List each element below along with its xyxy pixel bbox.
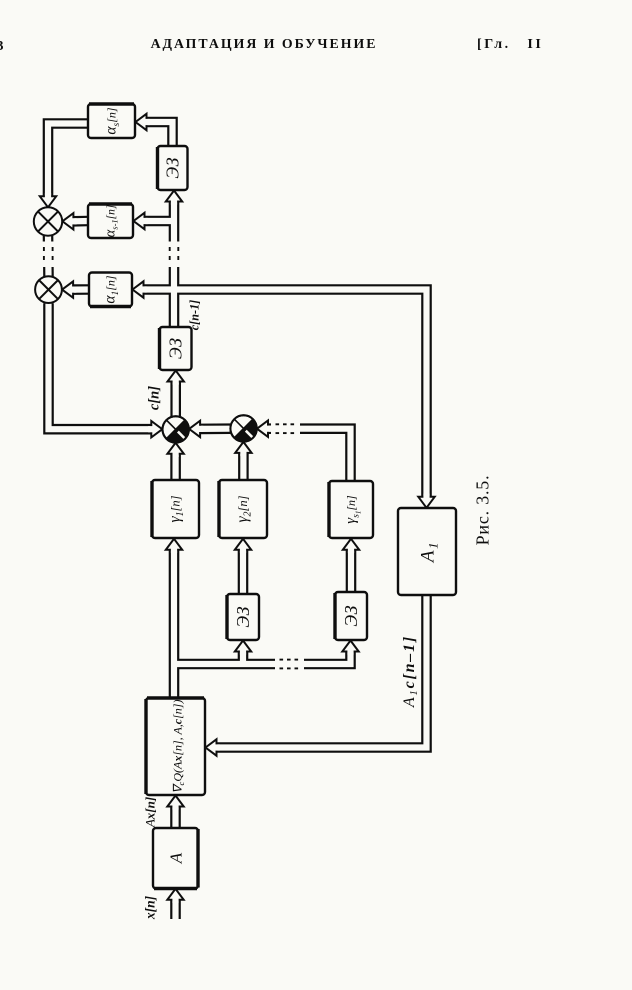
label A1c[n-1] on A1 output: [401, 635, 420, 708]
label nabla_c Q(Ax[n], A,c[n]) in gradient block: [171, 700, 187, 794]
wire: c[n-1] branch right and down to A1: [174, 290, 427, 497]
block EZ2 (memory): [160, 327, 192, 370]
block EZ4 (memory): [227, 594, 259, 640]
svg-text:ЭЗ: ЭЗ: [341, 605, 361, 626]
block EZ1 (memory): [158, 146, 188, 190]
wire: EZ5 output to gamma_s1[n] arrowhead: [343, 539, 359, 553]
adder S2 (circle, black right+bottom sectors): [230, 415, 256, 441]
wire: adder S1 output c[n] up to EZ2: [170, 382, 181, 417]
label Ax[n] on A output: [142, 797, 157, 828]
wire: EZ5 output to gamma_s1[n]: [346, 550, 357, 592]
wire: EZ4 output to gamma_2[n]: [238, 550, 249, 594]
wire: gamma_2[n] output to adder S2: [238, 453, 249, 480]
wire: alpha_s-1[n] output to multiplier M1: [73, 216, 88, 227]
svg-text:ЭЗ: ЭЗ: [166, 338, 186, 359]
wire: c[n-1] branch to alpha_1[n] arrowhead: [133, 281, 147, 297]
label alpha_s[n] in its block: [103, 107, 122, 135]
block alpha_s[n]: [88, 104, 135, 138]
label EZ in block EZ4: [233, 606, 253, 627]
block gamma_2[n]: [219, 480, 267, 538]
wire: adder S2 output to adder S1 arrowhead: [189, 421, 203, 437]
svg-text:∇cQ(Ax[n], A,c[n]): ∇cQ(Ax[n], A,c[n]): [171, 700, 187, 794]
block alpha_1[n]: [89, 273, 132, 307]
wire: EZ1 output to alpha_s[n]: [147, 122, 173, 146]
caption Ris. 3.5.: [473, 475, 493, 546]
svg-text:c[n]: c[n]: [146, 386, 162, 410]
wire: c[n-1] branch to alpha_1[n]: [144, 284, 175, 295]
wire: A1 output down and left to gradient block arrowhead: [206, 739, 220, 755]
wire: alpha_1[n] output to multiplier M2 arrowhead: [62, 281, 76, 297]
svg-text:ЭЗ: ЭЗ: [233, 606, 253, 627]
wire: multiplier chain M1 to M2: [43, 236, 54, 277]
svg-text:3: 3: [0, 39, 4, 54]
wire: gamma_1[n] output to adder S1: [170, 454, 181, 480]
svg-text:Рис. 3.5.: Рис. 3.5.: [473, 475, 493, 546]
wire: adder S1 output c[n] up to EZ2 arrowhead: [168, 371, 184, 385]
label EZ in block EZ5: [341, 605, 361, 626]
wire: A1 output down and left to gradient block: [217, 595, 427, 748]
block alpha_s-1[n]: [88, 204, 133, 238]
wire: EZ1 output to alpha_s[n] arrowhead: [136, 114, 150, 130]
block gradient nabla_c Q: [146, 698, 205, 795]
label c[n] on S1 output: [146, 386, 162, 410]
wire: EZ4 output to gamma_2[n] arrowhead: [235, 539, 251, 553]
wire: alpha_1[n] output to multiplier M2: [73, 284, 89, 295]
adder S1 (circle, black right+bottom sectors): [163, 416, 189, 442]
wire channels (white cores): [48, 122, 427, 919]
wire: c[n-1] branch to alpha_s-1[n] arrowhead: [134, 213, 148, 229]
label EZ in block EZ1: [163, 157, 183, 178]
wire: alpha_s-1[n] output to multiplier M1 arrowhead: [62, 213, 76, 229]
label gamma_2[n] in its block: [234, 495, 253, 522]
label alpha_1[n] in its block: [102, 275, 121, 304]
block gamma_1[n]: [152, 480, 199, 538]
label A1 in its block: [418, 541, 441, 564]
wire: gamma_s1[n] output to adder S2: [268, 429, 351, 481]
block EZ5 (memory): [335, 592, 367, 640]
svg-text:АДАПТАЦИЯ И ОБУЧЕНИЕ: АДАПТАЦИЯ И ОБУЧЕНИЕ: [151, 36, 378, 51]
wire: gamma_s1[n] output to adder S2 arrowhead: [257, 421, 271, 437]
ellipsis dash-dot on c[n-1] bus vertical: [168, 242, 180, 268]
wire: c[n-1] bus vertical EZ2 top to EZ1 bottom arrowhead: [166, 191, 182, 205]
label c[n-1] on bus: [188, 300, 202, 330]
svg-text:Ax[n]: Ax[n]: [142, 797, 157, 828]
block A1: [398, 508, 456, 595]
wire: c[n-1] branch to alpha_s-1[n]: [145, 216, 175, 227]
svg-text:c[n-1]: c[n-1]: [188, 300, 202, 330]
wire: gamma_2[n] output to adder S2 arrowhead: [235, 442, 251, 456]
block A: [153, 828, 198, 889]
label A in its block: [166, 852, 185, 864]
wire: alpha_s[n] output to multiplier M1 arrowhead: [40, 193, 56, 207]
ellipsis dash-dot on gamma_s1 to S2 wire: [271, 423, 300, 435]
block gamma_s1[n]: [329, 481, 373, 538]
wire: input x[n] into block A: [170, 900, 181, 919]
multiplier M2 (circle with X): [35, 276, 62, 303]
svg-text:A1c[n–1]: A1c[n–1]: [401, 635, 420, 708]
wire: distribution branch to EZ5: [174, 652, 351, 665]
wire: adder S2 output to adder S1: [200, 423, 230, 434]
ellipsis dash-dot on multiplier chain M1-M2: [42, 242, 54, 268]
wire: distribution branch to EZ5 arrowhead: [342, 641, 358, 655]
label gamma_1[n] in its block: [167, 495, 186, 522]
ellipsis dash-dot on distribution wire to EZ blocks: [275, 658, 304, 670]
wire: multiplier M2 output down and right to adder S1: [49, 303, 152, 429]
wire: gradient block output up to gamma_1[n]: [169, 550, 180, 698]
wire: input x[n] into block A arrowhead: [167, 889, 183, 903]
wire: alpha_s[n] output to multiplier M1: [48, 124, 88, 197]
wire: distribution branch to EZ4: [238, 652, 249, 665]
wire: c[n-1] bus vertical EZ2 top to EZ1 bottom: [169, 202, 180, 328]
wire: multiplier M2 output down and right to adder S1 arrowhead: [148, 421, 162, 437]
wire: block A output Ax[n] to gradient block arrowhead: [167, 796, 183, 810]
wire: c[n-1] branch right and down to A1 arrowhead: [418, 494, 434, 508]
svg-text:[Гл. II: [Гл. II: [477, 37, 543, 52]
wire: block A output Ax[n] to gradient block: [170, 807, 181, 829]
svg-text:ЭЗ: ЭЗ: [163, 157, 183, 178]
wire: distribution branch to EZ4 arrowhead: [235, 641, 251, 655]
label gamma_s1[n] in its block: [343, 495, 362, 524]
wire: gamma_1[n] output to adder S1 arrowhead: [167, 443, 183, 457]
svg-text:x[n]: x[n]: [143, 895, 158, 920]
wire: gradient block output up to gamma_1[n] arrowhead: [166, 539, 182, 553]
label alpha_s-1[n] in its block: [102, 205, 119, 238]
svg-text:A: A: [166, 852, 185, 864]
label EZ in block EZ2: [166, 338, 186, 359]
label x[n] at input: [143, 895, 158, 920]
multiplier M1 (circle with X): [34, 207, 62, 235]
